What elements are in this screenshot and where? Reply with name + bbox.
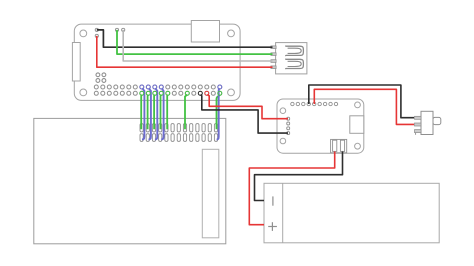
slide switch SW1 — [415, 111, 441, 135]
Raspberry Pi Zero board U1 — [74, 24, 240, 100]
wire green GPIO12 to display col5 — [166, 95, 169, 130]
pin 3 — [271, 60, 276, 63]
PowerBoost left pads — [287, 117, 290, 134]
dual USB-A socket J1 — [271, 43, 307, 74]
mounting hole — [228, 89, 235, 96]
wire black PowerBoost to switch — [309, 85, 414, 118]
display pin header slots — [140, 124, 218, 142]
switch pin 3 — [415, 130, 422, 133]
pin 4 — [271, 66, 276, 69]
wire blue GPIO11 to display col4 — [161, 88, 163, 139]
JST battery connector — [331, 139, 347, 152]
SD card slot — [72, 43, 80, 82]
wire green GPIO9 to display col2 — [147, 95, 150, 130]
USB port glyph lower — [285, 59, 303, 69]
GPIO colored rings — [140, 85, 222, 95]
wire red PowerBoost to switch — [314, 89, 414, 124]
switch pin 2 — [415, 123, 422, 126]
PowerBoost top pad row — [291, 102, 338, 105]
PowerBoost micro USB — [350, 116, 364, 134]
PowerBoost board U2 — [277, 99, 364, 153]
pad PP6 — [95, 34, 98, 37]
wire red Pi GND to USB — [97, 36, 273, 67]
mounting hole — [280, 108, 286, 114]
battery minus symbol — [272, 196, 274, 205]
pin 2 — [271, 53, 276, 56]
wire green Pi D+ to USB — [117, 30, 273, 54]
wire green GPIO15 to display col8 — [185, 95, 187, 130]
wire green GPIO20 to display col13 — [217, 95, 220, 130]
wire gray Pi D- to USB — [123, 30, 272, 61]
display flex window — [202, 149, 219, 238]
RUN pads 2x2 — [96, 73, 106, 83]
wire red JST to battery plus — [249, 152, 334, 225]
wire black JST to battery minus — [255, 152, 343, 201]
wire blue GPIO9 to display col2 — [149, 88, 151, 139]
battery plus symbol — [268, 222, 277, 231]
switch pin 1 — [415, 116, 422, 119]
wire black GPIO17 to PowerBoost — [201, 95, 288, 134]
mounting hole — [228, 30, 235, 37]
wire red GPIO18 to PowerBoost — [207, 95, 288, 119]
wire blue GPIO20 to display col13 — [217, 88, 220, 139]
pin 1 — [271, 46, 276, 49]
wire green GPIO11 to display col4 — [160, 95, 163, 130]
pad PP1 — [95, 28, 98, 31]
display module LCD1 — [34, 118, 226, 243]
GPIO header 2x20 — [94, 85, 222, 95]
wire green GPIO10 to display col3 — [153, 95, 156, 130]
pad PP23 — [122, 28, 125, 31]
battery terminal divider — [282, 183, 284, 243]
wire black Pi 5V to USB — [97, 30, 273, 47]
mounting hole — [355, 102, 361, 108]
wire blue GPIO10 to display col3 — [155, 88, 157, 139]
camera connector — [191, 21, 219, 43]
mounting hole — [280, 138, 286, 144]
mounting hole — [80, 30, 87, 37]
wire green GPIO8 to display col1 — [140, 95, 143, 130]
wire blue GPIO8 to display col1 — [142, 88, 144, 139]
mounting hole — [355, 143, 361, 149]
pad PP22 — [115, 28, 118, 31]
LiPo battery BT1 — [264, 183, 439, 243]
USB port glyph upper — [285, 46, 303, 56]
mounting hole — [80, 89, 87, 96]
